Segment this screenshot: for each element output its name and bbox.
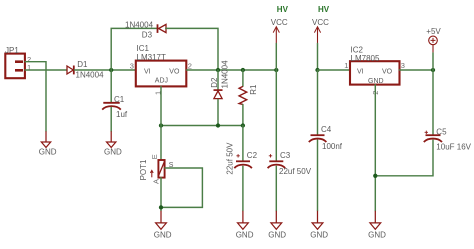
svg-text:C2: C2 [247,151,258,160]
wire C5 bottom to GND rail [375,140,433,176]
junction VCC2 / C4 / IC2 VI [315,68,319,72]
wire C2 top lead [242,126,244,161]
svg-text:GND: GND [236,231,254,240]
wire +5V stem [432,53,434,70]
svg-text:VCC: VCC [271,18,288,27]
svg-text:1N4004: 1N4004 [221,60,230,89]
svg-text:C1: C1 [114,95,125,104]
junction VCC / C3 node [274,68,278,72]
wire IC2 VO to +5V node [400,69,434,71]
svg-text:VO: VO [382,69,393,76]
diode D2 [214,90,223,99]
svg-text:GND: GND [104,148,122,157]
svg-text:100nf: 100nf [322,142,343,151]
ground GND (IC2) [368,211,386,240]
capacitor C2 [234,154,252,168]
ground GND (POT1) [154,211,172,240]
svg-text:GND: GND [39,148,57,157]
junction R1 bottom / C2 top [241,123,245,127]
supply VCC arrow (net HV, right) [314,27,320,44]
wire VCC stem (right) [317,44,319,71]
svg-text:3: 3 [130,62,134,71]
svg-text:1N4004: 1N4004 [125,20,154,29]
svg-text:C4: C4 [321,125,332,134]
wire POT1 bottom to GND [160,178,162,211]
regulator IC1 LM317T [136,61,187,87]
svg-text:HV: HV [277,5,289,14]
junction node VI rail [109,68,113,72]
wire D2 bottom lead [217,100,219,126]
wire JP1 pin1 to D1 [25,69,67,71]
svg-text:POT1: POT1 [139,159,148,180]
svg-text:ADJ: ADJ [155,77,168,84]
wire C1 to GND [110,108,112,132]
wire D2 top lead [217,70,219,90]
capacitor C5 [424,131,442,142]
svg-text:3: 3 [401,61,405,70]
svg-text:D3: D3 [142,31,153,40]
wire C3 top lead [275,70,277,160]
svg-text:1: 1 [344,61,348,70]
wire C3 to GND [275,166,277,211]
wire IC1 ADJ pin down [160,87,162,126]
junction D2 top [216,68,220,72]
svg-text:+5V: +5V [426,27,441,36]
svg-text:A: A [152,179,161,184]
resistor R1 [239,86,247,104]
wire VI to D3 [111,28,157,70]
wire ADJ rail to POT1 [160,126,162,161]
svg-text:D1: D1 [77,60,88,69]
svg-text:22uf 50V: 22uf 50V [279,167,312,176]
svg-text:VI: VI [357,69,364,76]
supply VCC arrow (net HV, left) [273,27,279,44]
svg-text:D2: D2 [210,77,219,88]
svg-text:R1: R1 [249,84,258,95]
wire VCC2 to IC2 VI [318,69,351,71]
svg-text:1uf: 1uf [116,110,128,119]
svg-text:C3: C3 [280,151,291,160]
wire C2 to GND [242,166,244,211]
potentiometer POT1 [150,160,164,178]
svg-text:GND: GND [368,78,384,85]
svg-text:VCC: VCC [312,18,329,27]
wire C4 top lead [317,70,319,134]
capacitor C3 [268,154,286,168]
wire D1 to IC1 VI [75,69,136,71]
svg-text:22uf 50V: 22uf 50V [226,142,235,175]
ground GND (C2) [236,211,254,240]
junction +5V / C5 [431,68,435,72]
connector JP1 [5,54,25,79]
junction ADJ rail at POT branch [159,123,163,127]
svg-text:E: E [150,154,159,159]
regulator IC2 LM7805 [350,61,400,84]
ground GND (C1) [104,131,122,156]
supply +5V symbol [429,36,438,53]
wire IC2 GND pin down [374,85,376,211]
svg-text:GND: GND [154,231,172,240]
svg-text:GND: GND [310,231,328,240]
svg-text:1: 1 [27,63,31,72]
svg-text:GND: GND [268,231,286,240]
ground GND (C4) [310,211,328,240]
diode D3 [158,24,167,33]
diode D1 [67,66,74,75]
wire wiper S loop [161,168,202,207]
svg-text:1N4004: 1N4004 [76,71,105,80]
wire R1 bottom lead [242,105,244,126]
wire JP1 pin2 to GND [25,62,46,132]
wire C4 to GND [317,140,319,211]
svg-text:VI: VI [144,69,151,76]
svg-text:VO: VO [169,69,180,76]
ground GND (C3) [268,211,286,240]
capacitor C1 [102,103,121,110]
wire VCC stem (left) [275,44,277,71]
svg-text:10uF 16V: 10uF 16V [436,143,471,152]
wire D3 to VO rail [166,28,218,70]
capacitor C4 [309,135,327,142]
junction R1 top [241,68,245,72]
svg-text:IC1: IC1 [137,44,150,53]
svg-text:HV: HV [318,5,330,14]
ground GND (JP1) [39,131,57,156]
svg-text:C5: C5 [436,127,447,136]
svg-text:LM7805: LM7805 [351,54,380,63]
wire R1 top lead [242,70,244,86]
svg-text:GND: GND [368,231,386,240]
wire C1 branch [110,70,112,102]
svg-text:LM317T: LM317T [137,53,166,62]
junction POT1 / wiper [159,205,163,209]
junction D2 bottom [216,123,220,127]
wire C5 top lead [432,70,434,134]
svg-text:JP1: JP1 [5,46,19,55]
wire ADJ rail [161,125,243,127]
junction IC2 GND / C5 [373,174,377,178]
wire IC1 VO rail [187,69,277,71]
